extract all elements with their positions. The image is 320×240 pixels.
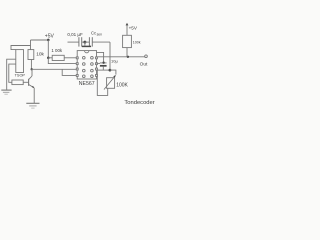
ground GND1 left (1, 89, 11, 91)
svg-text:+5V: +5V (45, 33, 55, 39)
node caps junction dot (83, 41, 86, 44)
TSOP IR receiver box (16, 50, 24, 73)
node collector junction dot (31, 68, 33, 70)
wire node to IC pin 3 row (31, 68, 77, 70)
resistor R2 100k horizontal (52, 55, 64, 60)
wire TSOP out pin to R3 (9, 64, 16, 82)
wire node to R2 (48, 57, 52, 59)
wire node down and to IC pin 2 row (48, 58, 77, 64)
svg-text:10k: 10k (36, 52, 44, 58)
svg-text:10µ: 10µ (111, 58, 118, 63)
svg-text:NE567: NE567 (79, 81, 95, 87)
wire +5V right down to R4 (126, 24, 128, 35)
wire +5V rail left horizontal (31, 39, 49, 41)
node timing junction dot (109, 69, 112, 72)
wire branch to TSOP top (11, 46, 31, 50)
wire caps right end down to timing node (109, 42, 111, 70)
svg-text:100K: 100K (116, 82, 128, 88)
svg-text:Tondecoder: Tondecoder (124, 100, 154, 106)
wire R3 to base (23, 81, 28, 83)
svg-text:TSOP: TSOP (15, 74, 26, 78)
pin pads right column (91, 56, 94, 59)
potentiometer P1 100K (107, 78, 115, 89)
pin squares right (96, 57, 98, 59)
wire TSOP gnd pin (7, 59, 16, 90)
ground GND2 emitter (26, 102, 39, 104)
notch pin1 mark (85, 51, 89, 53)
wire node to pot wiper (110, 70, 116, 75)
resistor R4 100k vertical (123, 35, 132, 47)
svg-text:Out: Out (140, 61, 148, 67)
wire C3 bottom down (102, 67, 104, 71)
pin squares left (76, 57, 78, 59)
capacitor C1 0,01uF plates (68, 41, 79, 43)
svg-text:sen: sen (97, 32, 103, 36)
wire IC pin2 right to C3 (97, 62, 101, 64)
wire R2 to IC pin 1 row (64, 57, 77, 59)
resistor R3 base horizontal (12, 80, 23, 85)
wire jog down to IC pin 4 row (62, 69, 81, 75)
svg-text:100k: 100k (133, 40, 141, 44)
bar over IC notch (82, 45, 91, 47)
svg-text:0,01 µF: 0,01 µF (67, 32, 83, 37)
node +5V supply dot left (47, 39, 50, 42)
svg-text:Cc: Cc (91, 31, 96, 36)
node 100k junction dot (47, 57, 50, 60)
resistor R1 10k vertical (28, 50, 34, 60)
transistor Q1 (28, 79, 30, 86)
wire +5V down to 100k node (47, 40, 49, 58)
wire timing loop left and under pot (97, 70, 107, 95)
wire IC pin8 out row (97, 56, 145, 58)
wire R1 bottom to collector node (30, 60, 32, 70)
svg-text:+5V: +5V (129, 25, 138, 30)
wire IC pin6 row to timing node (97, 69, 110, 71)
IC U1 NE567 DIP-8 body (77, 51, 96, 79)
capacitor C2 Cc sen plates (85, 41, 90, 43)
wire from rail down into R1 (30, 40, 32, 50)
wire IC corner to C3 top (97, 52, 104, 62)
wire caps junction down to IC top (84, 42, 86, 46)
terminal out open circle (145, 55, 148, 58)
arrow +5V right (126, 23, 129, 26)
wire R4 bottom to out node (126, 48, 128, 57)
svg-text:1 00k: 1 00k (51, 48, 63, 53)
capacitor C3 10u plates (100, 62, 107, 64)
pin pads left column (83, 56, 86, 59)
node out junction dot (127, 56, 129, 58)
